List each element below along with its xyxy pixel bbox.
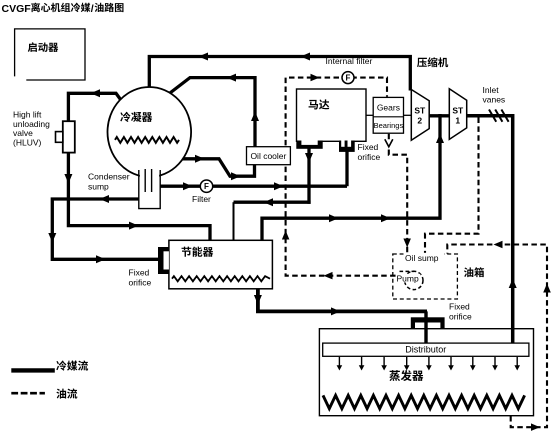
label motor cn xyxy=(309,100,319,110)
svg-text:orifice: orifice xyxy=(129,277,152,287)
pipe condenser to HLUV xyxy=(68,93,122,121)
svg-text:ST: ST xyxy=(414,106,426,116)
arrow right at 386,218.2 xyxy=(381,214,391,222)
arrow right at 336,311.4 xyxy=(331,307,341,315)
svg-text:2: 2 xyxy=(417,116,422,126)
arrow right at 279,186.2 xyxy=(274,182,284,190)
arrow right at 334,218.2 xyxy=(329,214,339,222)
oil line evaporator return to oil sump xyxy=(447,245,547,428)
motor left foot terminal xyxy=(296,141,322,149)
svg-text:F: F xyxy=(346,74,351,83)
motor box xyxy=(297,89,367,141)
arrow right at 200,158.8 xyxy=(195,155,205,163)
pipe ST2 to ST1 interstage xyxy=(429,114,449,117)
label condenser cn xyxy=(120,112,130,122)
label economizer cn xyxy=(182,247,192,257)
oil arrow right at 536,427 xyxy=(531,423,540,431)
arrow left at 268,202.2 xyxy=(264,198,274,206)
pipe HLUV down to economizer top xyxy=(68,152,210,240)
svg-text:orifice: orifice xyxy=(358,152,381,162)
economizer box xyxy=(169,240,273,288)
label Oil sump xyxy=(404,253,445,262)
pipe motor right foot drain xyxy=(345,150,348,186)
shaft motor to gears xyxy=(366,114,373,116)
filter F circle on sump line xyxy=(200,180,212,192)
motor right foot terminal xyxy=(339,141,355,152)
pipe condenser sump left loop to fixed orifice xyxy=(52,199,158,259)
svg-text:orifice: orifice xyxy=(449,311,472,321)
arrow down at 309,160.5 xyxy=(305,153,313,163)
oil line pump to internal filter and gears xyxy=(286,78,405,276)
economizer fixed orifice bracket xyxy=(158,247,169,274)
svg-text:Internal filter: Internal filter xyxy=(326,56,373,66)
oil pump dashed circle xyxy=(405,271,423,289)
pipe condenser to oil cooler feed xyxy=(180,159,255,176)
arrow left at 203,56.5 xyxy=(199,53,209,61)
svg-text:Oil cooler: Oil cooler xyxy=(250,151,286,161)
arrow left at 302,56.5 xyxy=(301,53,311,61)
svg-text:Fixed: Fixed xyxy=(449,302,470,312)
svg-text:(HLUV): (HLUV) xyxy=(13,138,42,148)
arrow down at 68.4,179 xyxy=(64,174,72,184)
condenser sump inner tubes xyxy=(145,169,151,192)
HLUV valve actuator tab xyxy=(56,132,63,143)
legend label refrigerant flow xyxy=(56,360,66,370)
oil arrow up at 547,288 xyxy=(543,284,551,293)
arrow down at 257.9,300 xyxy=(254,295,262,305)
legend oil line sample xyxy=(11,392,45,395)
svg-text:Fixed: Fixed xyxy=(358,142,379,152)
distributor box xyxy=(323,343,529,356)
arrow up at 255,116 xyxy=(251,112,259,122)
HLUV valve body xyxy=(63,121,75,152)
pipe orifice to distributor xyxy=(424,311,427,343)
condenser tube zigzag xyxy=(115,137,179,143)
pipe economizer vapor to interstage xyxy=(262,114,440,241)
distributor spray arrows xyxy=(337,357,520,371)
condenser circle xyxy=(108,87,192,177)
inlet vanes hash marks xyxy=(489,110,509,122)
arrow down at 52.3,238 xyxy=(48,233,56,243)
pipe drain to economizer top xyxy=(234,201,311,204)
arrow up at 440,138 xyxy=(436,134,444,144)
arrow right at 134,225.6 xyxy=(129,222,139,230)
pipe compressor discharge to condenser top xyxy=(149,57,410,93)
svg-text:Condenser: Condenser xyxy=(88,172,130,182)
condenser sump outline xyxy=(139,170,160,209)
label compressor cn xyxy=(417,58,427,67)
pipe drain drop to economizer xyxy=(233,202,235,240)
legend label oil flow xyxy=(56,389,66,399)
pipe condenser sump to filter line xyxy=(160,185,347,188)
pipe economizer bottom to distributor orifice xyxy=(258,289,427,311)
label starter xyxy=(28,42,37,52)
svg-text:CVGF: CVGF xyxy=(2,3,32,15)
gears-bearings divider xyxy=(373,116,403,118)
svg-text:Pump: Pump xyxy=(397,273,419,283)
pipe motor left foot drain xyxy=(307,148,310,204)
svg-text:1: 1 xyxy=(455,116,460,126)
svg-text:Bearings: Bearings xyxy=(374,121,404,130)
label evaporator cn xyxy=(389,370,400,381)
evaporator tube zigzag xyxy=(323,395,525,408)
evaporator shell xyxy=(319,329,533,416)
arrow right at 236,176.2 xyxy=(231,172,241,180)
label Pump xyxy=(396,274,421,283)
oil arrow left at 498,244.5 xyxy=(494,241,503,248)
oil cooler box xyxy=(247,147,291,165)
svg-text:Fixed: Fixed xyxy=(129,268,150,278)
oil pump volute top xyxy=(400,270,415,272)
gears-bearings box xyxy=(373,97,403,133)
oil arrow down into sump at 407,243 xyxy=(403,239,411,248)
distributor fixed orifice xyxy=(411,317,445,322)
oil arrow right at 315,77.6 xyxy=(311,74,320,82)
label oil tank cn xyxy=(464,267,473,277)
legend refrigerant line sample xyxy=(11,368,55,372)
svg-text:High lift: High lift xyxy=(13,109,42,119)
svg-text:Distributor: Distributor xyxy=(405,345,446,355)
svg-text:F: F xyxy=(204,182,209,191)
svg-text:Oil sump: Oil sump xyxy=(405,253,439,263)
svg-text:/: / xyxy=(91,3,94,15)
compressor stage ST2 xyxy=(411,90,429,141)
shaft gears to ST2 xyxy=(404,114,412,116)
pipe ST1 to inlet vanes and down to evaporator xyxy=(467,116,513,344)
oil arrow up at 285.6,235 xyxy=(282,231,290,240)
arrow right at 101,259.3 xyxy=(96,255,106,263)
compressor stage ST1 xyxy=(449,89,466,140)
arrow left at 104,199 xyxy=(100,195,110,203)
svg-text:Gears: Gears xyxy=(377,103,400,113)
svg-text:vanes: vanes xyxy=(483,95,506,105)
arrow left at 231,77.6 xyxy=(227,74,237,82)
starter box xyxy=(15,29,85,80)
arrow left at 95,93.3 xyxy=(91,89,101,97)
oil sump dashed box xyxy=(393,254,458,299)
economizer tube zigzag xyxy=(172,276,270,281)
oil line bearings drain to oil sump xyxy=(389,134,407,254)
svg-text:sump: sump xyxy=(88,182,109,192)
svg-text:ST: ST xyxy=(452,106,464,116)
internal filter F circle xyxy=(342,72,354,84)
oil line ST1 drain to oil sump xyxy=(425,118,479,254)
pipe oil cooler vent to condenser xyxy=(168,78,255,149)
svg-text:Inlet: Inlet xyxy=(483,85,500,95)
condenser sump eraser xyxy=(140,166,159,208)
svg-text:Filter: Filter xyxy=(192,194,211,204)
arrow up at 512.7,283 xyxy=(509,279,517,289)
oil arrow left at 328,275.7 xyxy=(324,272,333,280)
open V arrowhead below bearings xyxy=(385,139,393,147)
arrow right at 188,186.2 xyxy=(183,182,193,190)
